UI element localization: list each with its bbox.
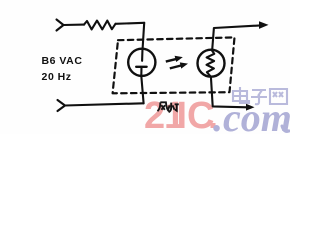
wire vertical down to lamp	[143, 23, 145, 49]
lamp L1 circle	[128, 49, 155, 76]
output arrowhead bottom	[246, 104, 255, 111]
svg-text:B6 VAC: B6 VAC	[42, 55, 83, 67]
svg-text:C: C	[187, 95, 214, 134]
wire lamp to bottom rail	[141, 76, 143, 103]
light arrow 1 shaft	[166, 59, 177, 62]
lamp bottom stem	[140, 67, 142, 76]
input terminal top chevron	[57, 20, 64, 31]
svg-text:20 Hz: 20 Hz	[42, 71, 72, 83]
svg-text:2: 2	[144, 95, 165, 134]
wire photoresistor top to corner	[212, 25, 260, 49]
light arrow 2 shaft	[170, 65, 182, 68]
light arrow 1 head	[175, 56, 183, 62]
watermark 21IC pink text	[144, 95, 216, 137]
svg-text:.com: .com	[213, 95, 290, 134]
wire bottom rail	[65, 103, 144, 105]
input terminal bottom chevron	[58, 100, 66, 111]
light arrow 2 head	[180, 62, 188, 68]
watermark m swash tail	[282, 126, 289, 131]
wire resistor to corner	[116, 23, 145, 24]
watermark glyph 网	[270, 89, 287, 104]
lamp top electrode	[141, 49, 143, 61]
wire photoresistor bottom to corner	[211, 77, 247, 108]
output arrowhead top	[259, 21, 269, 29]
lamp bottom electrode bar	[136, 66, 146, 68]
dashed optocoupler box	[113, 37, 235, 93]
svg-text:I: I	[177, 95, 188, 134]
watermark 电子网 lavender glyph 电	[233, 87, 287, 104]
resistor R1 zigzag	[84, 21, 116, 30]
photoresistor zigzag	[207, 50, 215, 76]
label CJK char feng	[158, 102, 179, 112]
label CJK char deng	[168, 103, 179, 113]
wire top-left	[64, 24, 85, 26]
photoresistor R2 circle	[198, 50, 225, 77]
watermark glyph 子	[251, 90, 267, 104]
